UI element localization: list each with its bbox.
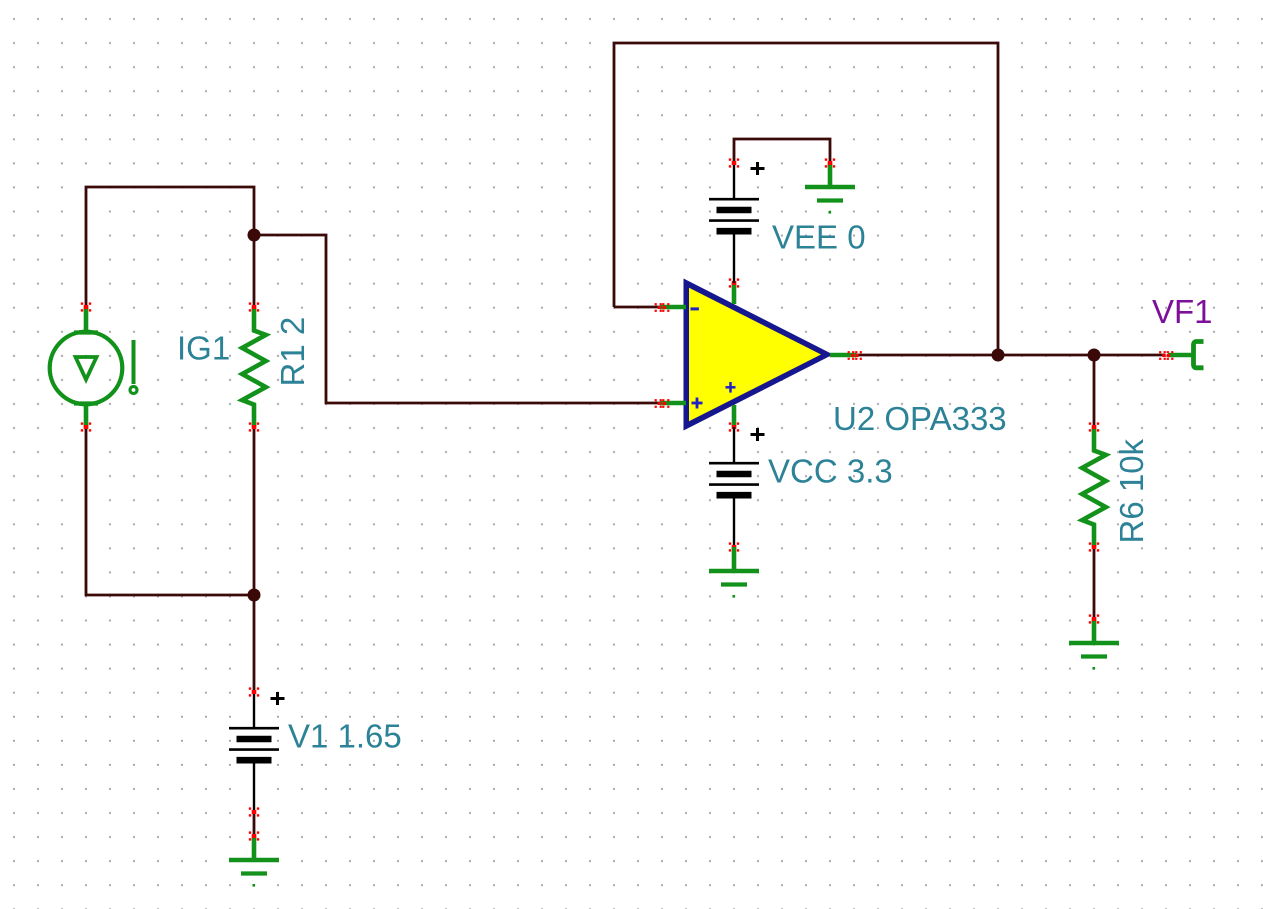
ground VEE — [805, 163, 855, 214]
resistor R1 — [242, 307, 266, 427]
plus sign VCC — [751, 428, 765, 441]
plus sign VEE — [751, 162, 765, 175]
minus marker inverting input — [691, 307, 699, 310]
wire VEE loop — [734, 139, 830, 163]
junction D output/R6 — [1088, 349, 1101, 362]
wire R6 bottom to ground — [1093, 547, 1096, 619]
terminal x V1 bottom — [249, 807, 259, 816]
voltage source V1 — [229, 692, 279, 812]
voltage source VCC — [709, 427, 759, 547]
terminal x R6 bottom — [1089, 542, 1099, 551]
wire inverting input — [614, 306, 660, 309]
plus marker positive supply pin — [726, 382, 736, 393]
junction C feedback/output — [992, 349, 1005, 362]
terminal x V1 top — [249, 687, 259, 696]
junction B — [248, 589, 261, 602]
resistor R6 — [1082, 427, 1106, 547]
terminal x VCC bottom — [729, 542, 739, 551]
wire feedback loop — [614, 43, 998, 355]
wire junction D to R6 — [1093, 355, 1096, 427]
terminal x VF1 — [1159, 351, 1173, 360]
svg-text:R1 2: R1 2 — [274, 317, 311, 387]
current source IG1 — [50, 307, 137, 428]
wire output net — [855, 354, 1165, 357]
terminal x op-amp inverting input — [655, 303, 670, 312]
ground R6 — [1069, 619, 1119, 670]
ground VCC — [709, 547, 759, 598]
terminal x op-amp non-inverting input — [655, 399, 670, 408]
terminal x op-amp top power pin — [729, 278, 739, 287]
terminal x V1 ground — [249, 831, 259, 840]
svg-text:R6 10k: R6 10k — [1113, 438, 1150, 543]
terminal x IG1 bottom — [81, 422, 91, 431]
terminal x R1 bottom — [249, 422, 259, 431]
wire R1 bottom to junction B — [253, 427, 256, 595]
wire IG1 bottom to junction B — [86, 427, 254, 595]
plus sign V1 — [271, 692, 285, 705]
wire IG1 top loop — [86, 187, 254, 308]
op-amp U2 — [660, 279, 856, 431]
svg-text:U2 OPA333: U2 OPA333 — [833, 400, 1007, 437]
terminal x VEE ground — [825, 158, 835, 167]
terminal x R6 ground — [1089, 614, 1099, 623]
terminal x op-amp output — [848, 351, 862, 360]
svg-text:V1 1.65: V1 1.65 — [288, 718, 402, 755]
terminal x R6 top — [1089, 422, 1099, 431]
terminal x IG1 top — [81, 302, 91, 311]
terminal x R1 top — [249, 302, 259, 311]
wire V1 to ground — [253, 811, 256, 836]
svg-text:IG1: IG1 — [177, 330, 230, 367]
svg-text:VEE 0: VEE 0 — [772, 219, 866, 256]
terminal x op-amp bottom power pin — [729, 422, 739, 431]
ground V1 — [229, 836, 279, 887]
voltage source VEE — [709, 163, 759, 283]
terminal x VEE top — [729, 158, 739, 167]
svg-text:VF1: VF1 — [1152, 293, 1213, 330]
wire junction A to R1 top — [253, 235, 256, 308]
wire junction A to op-amp non-inverting input — [254, 235, 660, 403]
junction A — [248, 229, 261, 242]
svg-text:VCC 3.3: VCC 3.3 — [768, 453, 893, 490]
plus marker non-inverting input — [692, 398, 703, 409]
wire junction B to V1 — [253, 595, 256, 692]
probe VF1 — [1168, 342, 1204, 368]
